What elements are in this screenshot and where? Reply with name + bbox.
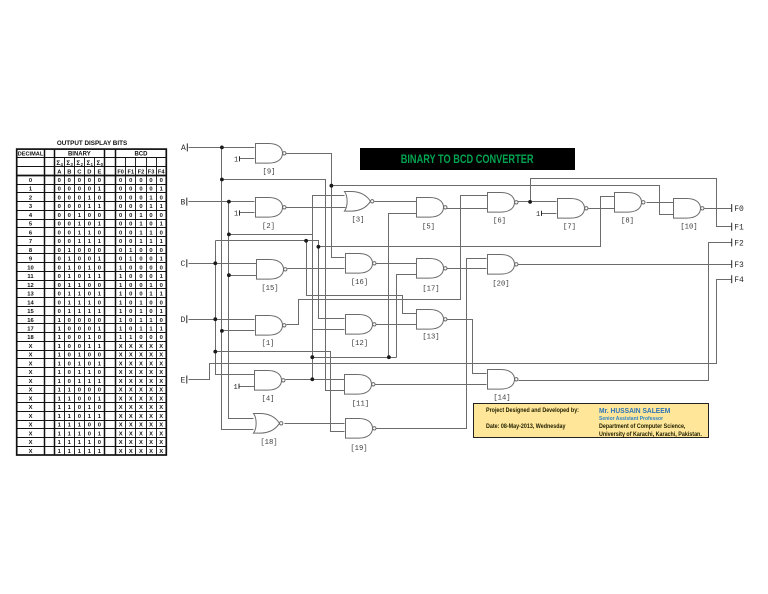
svg-text:X: X (29, 431, 33, 437)
wire: node x312 vertical (313, 196, 345, 380)
svg-text:0: 0 (88, 396, 91, 402)
svg-text:X: X (129, 449, 133, 455)
svg-text:0: 0 (78, 388, 81, 394)
svg-text:11: 11 (27, 274, 34, 280)
svg-text:X: X (139, 449, 143, 455)
gate 1 NAND (256, 316, 287, 336)
svg-text:E: E (181, 376, 186, 385)
svg-text:X: X (29, 440, 33, 446)
svg-text:X: X (129, 405, 133, 411)
svg-text:[19]: [19] (350, 445, 367, 453)
svg-text:X: X (29, 423, 33, 429)
svg-text:[4]: [4] (262, 396, 275, 404)
wire: gate 16 output to gate 17 (375, 263, 417, 265)
svg-text:0: 0 (119, 195, 122, 201)
svg-text:0: 0 (129, 309, 132, 315)
wire: input A to gate 9 (189, 147, 255, 149)
svg-text:0: 0 (149, 274, 152, 280)
wire: node to gate 13 upper (307, 241, 417, 314)
svg-text:0: 0 (78, 414, 81, 420)
gate 16 NAND (346, 254, 377, 274)
svg-text:X: X (119, 440, 123, 446)
svg-text:X: X (149, 405, 153, 411)
svg-text:X: X (129, 396, 133, 402)
svg-text:[11]: [11] (352, 401, 369, 409)
svg-text:BINARY: BINARY (68, 152, 91, 158)
wire: input E long run to F4 (189, 280, 732, 380)
svg-text:0: 0 (88, 248, 91, 254)
wire: gate 7 output to gate 8 (589, 208, 615, 210)
svg-text:0: 0 (68, 230, 71, 236)
svg-text:0: 0 (119, 178, 122, 184)
svg-text:0: 0 (68, 370, 71, 376)
wire: branch to gate 19 lower (216, 352, 345, 432)
svg-text:X: X (149, 388, 153, 394)
svg-text:X: X (139, 423, 143, 429)
svg-text:0: 0 (149, 187, 152, 193)
wire: gate 12 output to gate 13 (376, 324, 417, 326)
svg-text:0: 0 (98, 318, 101, 324)
wire: bus A vertical (222, 148, 254, 430)
svg-text:F1: F1 (128, 170, 135, 176)
svg-text:[3]: [3] (352, 217, 365, 225)
title banner (360, 148, 575, 170)
svg-text:[16]: [16] (351, 279, 368, 287)
wire: 1-literal to gate 9 (240, 158, 255, 160)
svg-text:0: 0 (98, 388, 101, 394)
svg-text:0: 0 (88, 326, 91, 332)
svg-text:F4: F4 (158, 170, 165, 176)
svg-text:X: X (129, 353, 133, 359)
svg-text:0: 0 (129, 187, 132, 193)
svg-text:0: 0 (58, 283, 61, 289)
svg-text:0: 0 (98, 283, 101, 289)
svg-text:DECIMAL: DECIMAL (18, 152, 44, 158)
svg-text:1: 1 (536, 211, 540, 219)
table vertical grid lines (44, 150, 46, 455)
svg-text:F1: F1 (734, 224, 744, 233)
svg-text:0: 0 (88, 318, 91, 324)
svg-text:7: 7 (29, 239, 32, 245)
svg-text:X: X (139, 379, 143, 385)
svg-text:0: 0 (139, 265, 142, 271)
svg-text:0: 0 (88, 423, 91, 429)
svg-text:0: 0 (58, 195, 61, 201)
svg-text:0: 0 (139, 187, 142, 193)
wire: 1-literal to gate 2 (240, 212, 255, 214)
svg-text:X: X (159, 423, 163, 429)
wire: B branch to gate 15 lower (229, 275, 257, 277)
output terminal F2 (731, 239, 733, 247)
svg-text:0: 0 (68, 361, 71, 367)
svg-text:F2: F2 (734, 239, 744, 248)
junction n240 (304, 239, 308, 243)
svg-text:X: X (119, 396, 123, 402)
junction gate6 out (528, 200, 532, 204)
svg-text:0: 0 (68, 204, 71, 210)
svg-text:X: X (29, 344, 33, 350)
svg-text:[10]: [10] (680, 223, 697, 231)
svg-text:0: 0 (129, 222, 132, 228)
wire: gate 13 output to gate 14 upper (447, 320, 487, 374)
svg-text:2: 2 (29, 195, 32, 201)
svg-text:X: X (149, 449, 153, 455)
svg-text:0: 0 (149, 178, 152, 184)
wire: long branch to gate 8 upper (319, 197, 615, 247)
svg-text:0: 0 (139, 283, 142, 289)
svg-text:[12]: [12] (351, 340, 368, 348)
svg-text:0: 0 (160, 195, 163, 201)
svg-text:X: X (119, 405, 123, 411)
svg-text:0: 0 (88, 353, 91, 359)
svg-text:X: X (139, 361, 143, 367)
svg-text:[20]: [20] (492, 281, 509, 289)
svg-text:F3: F3 (148, 170, 155, 176)
svg-text:C: C (181, 260, 186, 269)
gate 2 NAND (256, 198, 287, 218)
svg-text:17: 17 (27, 326, 33, 332)
svg-text:0: 0 (58, 230, 61, 236)
svg-text:X: X (119, 370, 123, 376)
svg-text:0: 0 (78, 274, 81, 280)
svg-text:0: 0 (139, 335, 142, 341)
svg-text:0: 0 (129, 274, 132, 280)
svg-text:X: X (149, 379, 153, 385)
svg-text:0: 0 (58, 178, 61, 184)
svg-text:0: 0 (129, 326, 132, 332)
wire: gate 9 net to gate 10 lower (332, 186, 674, 215)
svg-text:0: 0 (58, 257, 61, 263)
svg-text:0: 0 (139, 195, 142, 201)
svg-text:X: X (139, 370, 143, 376)
svg-text:X: X (119, 423, 123, 429)
svg-text:X: X (129, 344, 133, 350)
junction B3 (227, 273, 231, 277)
table outer border (17, 149, 167, 455)
wire: gate 9 output (286, 154, 345, 258)
svg-text:0: 0 (88, 187, 91, 193)
gate 7 NAND (558, 199, 589, 219)
svg-text:X: X (129, 431, 133, 437)
svg-text:0: 0 (88, 213, 91, 219)
svg-text:X: X (129, 440, 133, 446)
svg-text:0: 0 (58, 222, 61, 228)
svg-text:0: 0 (88, 222, 91, 228)
svg-text:0: 0 (139, 257, 142, 263)
svg-text:0: 0 (78, 265, 81, 271)
svg-text:0: 0 (68, 379, 71, 385)
svg-text:B: B (67, 170, 71, 176)
svg-text:0: 0 (119, 239, 122, 245)
svg-text:X: X (119, 344, 123, 350)
svg-text:0: 0 (149, 309, 152, 315)
svg-text:0: 0 (88, 257, 91, 263)
svg-text:X: X (119, 414, 123, 420)
svg-text:0: 0 (58, 213, 61, 219)
svg-text:0: 0 (139, 204, 142, 210)
svg-text:0: 0 (119, 230, 122, 236)
wire: gate 3 output to gate 5 (375, 201, 417, 203)
svg-text:0: 0 (58, 274, 61, 280)
svg-text:X: X (159, 449, 163, 455)
junction B2 (227, 233, 231, 237)
svg-text:X: X (139, 396, 143, 402)
wire: gate 1 output to gate 6 upper (287, 196, 488, 325)
svg-text:0: 0 (78, 257, 81, 263)
wire: B branch to node x312 (229, 234, 313, 236)
svg-text:0: 0 (98, 335, 101, 341)
svg-text:X: X (159, 344, 163, 350)
svg-text:0: 0 (129, 204, 132, 210)
svg-text:X: X (139, 405, 143, 411)
svg-text:X: X (139, 388, 143, 394)
svg-text:X: X (119, 449, 123, 455)
svg-text:X: X (29, 370, 33, 376)
svg-text:0: 0 (88, 292, 91, 298)
svg-text:0: 0 (68, 326, 71, 332)
svg-text:0: 0 (129, 292, 132, 298)
gate 10 NAND (674, 199, 705, 219)
svg-text:0: 0 (68, 318, 71, 324)
svg-text:F3: F3 (734, 261, 744, 270)
svg-text:0: 0 (58, 300, 61, 306)
wire: gate 17 output to gate 20 (447, 268, 487, 270)
svg-text:B: B (181, 198, 186, 207)
svg-text:0: 0 (78, 204, 81, 210)
wire: net357 up to gate 17 lower (397, 275, 417, 358)
gate 20 NAND (488, 255, 519, 275)
svg-text:0: 0 (98, 248, 101, 254)
svg-text:0: 0 (58, 187, 61, 193)
junction A2 (220, 178, 224, 182)
svg-text:0: 0 (88, 283, 91, 289)
svg-text:0: 0 (98, 370, 101, 376)
svg-text:0: 0 (139, 178, 142, 184)
svg-text:X: X (159, 361, 163, 367)
junction A3 (220, 329, 224, 333)
gate 17 NAND (417, 259, 448, 279)
wire: gate 14 output to F2 (519, 243, 732, 381)
svg-text:0: 0 (78, 344, 81, 350)
svg-text:0: 0 (160, 300, 163, 306)
svg-text:0: 0 (149, 300, 152, 306)
wire: gate 11 output to gate 14 lower (375, 384, 487, 386)
svg-text:X: X (149, 370, 153, 376)
svg-text:0: 0 (149, 335, 152, 341)
svg-text:F4: F4 (734, 276, 744, 285)
svg-text:0: 0 (129, 239, 132, 245)
gate 5 NAND (417, 198, 448, 218)
svg-text:0: 0 (160, 283, 163, 289)
svg-text:0: 0 (119, 204, 122, 210)
gate 11 NAND (345, 375, 376, 395)
wire: 1-literal to gate 4 (239, 386, 255, 388)
wire: gate 2 output to gate 3 (284, 207, 346, 209)
svg-text:0: 0 (129, 230, 132, 236)
svg-text:X: X (149, 361, 153, 367)
wire: input D to gate 1 (189, 319, 255, 321)
svg-text:14: 14 (27, 300, 34, 306)
junction D2 (213, 350, 217, 354)
svg-text:0: 0 (68, 187, 71, 193)
wire: gate 19 output to gate 20 upper (375, 259, 487, 429)
svg-text:0: 0 (160, 265, 163, 271)
svg-text:[7]: [7] (563, 223, 576, 231)
svg-text:X: X (159, 414, 163, 420)
table horizontal grid lines (17, 157, 167, 159)
svg-text:0: 0 (119, 187, 122, 193)
svg-text:X: X (149, 431, 153, 437)
svg-text:0: 0 (129, 318, 132, 324)
svg-text:[15]: [15] (261, 285, 278, 293)
svg-text:0: 0 (98, 353, 101, 359)
svg-text:0: 0 (160, 178, 163, 184)
svg-text:0: 0 (129, 283, 132, 289)
svg-text:X: X (139, 353, 143, 359)
svg-text:0: 0 (68, 353, 71, 359)
svg-text:0: 0 (160, 318, 163, 324)
svg-text:0: 0 (58, 292, 61, 298)
svg-text:F2: F2 (138, 170, 145, 176)
credit box (473, 403, 709, 437)
gate 18 NOR (254, 414, 283, 434)
output terminal F1 (731, 223, 733, 231)
svg-text:[14]: [14] (493, 395, 510, 403)
junction C (213, 261, 217, 265)
svg-text:X: X (129, 423, 133, 429)
gate 19 NAND (346, 419, 377, 439)
wire: gate 6 net to F1 (531, 179, 732, 227)
svg-text:0: 0 (68, 344, 71, 350)
svg-text:0: 0 (68, 178, 71, 184)
svg-text:X: X (159, 405, 163, 411)
wire: gate 10 output to F0 (705, 208, 732, 210)
svg-text:0: 0 (160, 335, 163, 341)
gate 6 NAND (488, 193, 519, 213)
svg-text:[18]: [18] (260, 439, 277, 447)
svg-text:BCD: BCD (134, 152, 148, 158)
svg-text:X: X (149, 414, 153, 420)
svg-text:OUTPUT DISPLAY BITS: OUTPUT DISPLAY BITS (57, 140, 127, 147)
svg-text:X: X (159, 431, 163, 437)
svg-text:12: 12 (27, 283, 33, 289)
svg-text:0: 0 (129, 265, 132, 271)
svg-text:X: X (119, 353, 123, 359)
svg-text:X: X (159, 353, 163, 359)
svg-text:[5]: [5] (422, 223, 435, 231)
svg-text:0: 0 (88, 361, 91, 367)
svg-text:0: 0 (68, 195, 71, 201)
svg-text:0: 0 (68, 213, 71, 219)
svg-text:0: 0 (129, 300, 132, 306)
svg-text:0: 0 (139, 248, 142, 254)
svg-text:0: 0 (58, 248, 61, 254)
svg-text:0: 0 (129, 178, 132, 184)
wire: net357 up to gate 5 lower (389, 214, 417, 358)
svg-text:0: 0 (149, 222, 152, 228)
svg-text:X: X (159, 388, 163, 394)
gate 4 NAND (255, 371, 286, 391)
svg-text:X: X (29, 379, 33, 385)
svg-text:0: 0 (98, 423, 101, 429)
svg-text:X: X (129, 370, 133, 376)
svg-text:[13]: [13] (422, 334, 439, 342)
svg-text:0: 0 (119, 248, 122, 254)
svg-text:0: 0 (29, 178, 32, 184)
svg-text:0: 0 (58, 239, 61, 245)
wire: input C to gate 15 (189, 263, 257, 265)
svg-text:0: 0 (129, 213, 132, 219)
svg-text:0: 0 (98, 213, 101, 219)
svg-text:16: 16 (27, 318, 34, 324)
svg-text:X: X (29, 353, 33, 359)
svg-text:X: X (149, 440, 153, 446)
svg-text:0: 0 (78, 318, 81, 324)
svg-text:D: D (181, 316, 186, 325)
wire: gate 20 output to F3 (518, 264, 732, 266)
svg-text:0: 0 (88, 388, 91, 394)
svg-text:[17]: [17] (422, 286, 439, 294)
svg-text:15: 15 (27, 309, 34, 315)
svg-text:0: 0 (139, 292, 142, 298)
wire: branch to gate 12 lower (313, 329, 345, 331)
svg-text:0: 0 (78, 335, 81, 341)
junction gate4 out (310, 377, 314, 381)
wire: gate 6 output to gate 7 (518, 201, 557, 203)
svg-text:0: 0 (160, 213, 163, 219)
svg-text:0: 0 (129, 195, 132, 201)
svg-text:0: 0 (78, 405, 81, 411)
svg-text:0: 0 (98, 300, 101, 306)
output terminal F4 (731, 275, 733, 283)
svg-text:0: 0 (98, 440, 101, 446)
gate 13 NAND (417, 310, 448, 330)
svg-text:0: 0 (78, 195, 81, 201)
svg-text:E: E (97, 170, 101, 176)
svg-text:[9]: [9] (263, 169, 276, 177)
output terminal F3 (731, 260, 733, 268)
svg-text:X: X (29, 405, 33, 411)
wire: gate 4 output to gate 11 upper (286, 379, 345, 381)
svg-text:0: 0 (119, 257, 122, 263)
svg-text:[2]: [2] (262, 223, 275, 231)
output terminal F0 (731, 204, 733, 212)
svg-text:0: 0 (149, 257, 152, 263)
gate 12 NAND (346, 315, 377, 335)
svg-text:0: 0 (98, 230, 101, 236)
svg-text:0: 0 (68, 335, 71, 341)
gate 9 NAND (256, 144, 287, 164)
svg-text:0: 0 (78, 248, 81, 254)
junction A (220, 146, 224, 150)
svg-text:[8]: [8] (621, 217, 634, 225)
svg-text:X: X (139, 431, 143, 437)
svg-text:0: 0 (58, 204, 61, 210)
svg-text:0: 0 (68, 222, 71, 228)
svg-text:X: X (129, 388, 133, 394)
svg-text:0: 0 (98, 178, 101, 184)
svg-text:0: 0 (160, 230, 163, 236)
svg-text:X: X (29, 449, 33, 455)
svg-text:X: X (159, 379, 163, 385)
svg-text:X: X (129, 361, 133, 367)
gate 8 NAND (615, 193, 646, 213)
svg-text:[6]: [6] (493, 218, 506, 226)
wire: A branch to gate 11 lower (222, 180, 345, 391)
svg-text:0: 0 (78, 396, 81, 402)
svg-text:X: X (159, 396, 163, 402)
wire: gate 8 output to gate 10 (647, 202, 674, 204)
